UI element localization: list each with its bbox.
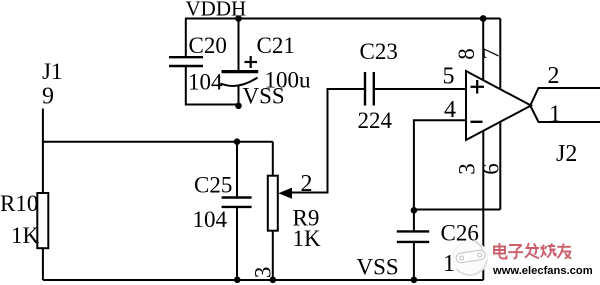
resistor R10 — [37, 193, 48, 248]
watermark char dian — [494, 243, 507, 259]
potentiometer R9 body — [268, 176, 278, 231]
node VSS junction dot — [235, 103, 242, 110]
wire C25 bottom lead — [236, 208, 238, 280]
svg-text:1: 1 — [549, 102, 561, 128]
capacitor C20 — [169, 57, 203, 66]
wire J1 pin 9 vertical — [42, 109, 44, 194]
svg-text:9: 9 — [42, 84, 54, 110]
wire pin 6 vertical — [499, 122, 501, 210]
wire pin 8 vertical — [482, 19, 484, 81]
svg-text:104: 104 — [188, 70, 223, 95]
svg-text:C25: C25 — [194, 173, 232, 198]
node junction dot C26 bottom — [411, 277, 418, 284]
svg-text:J1: J1 — [42, 59, 62, 84]
wire C25 top lead — [236, 142, 238, 197]
node junction dot at C25 top — [234, 138, 241, 145]
wire pin 7 vertical — [499, 19, 501, 90]
capacitor C26 — [397, 231, 429, 242]
svg-text:C21: C21 — [257, 33, 295, 58]
watermark char fa — [525, 243, 539, 258]
wire C20 bottom lead to VSS node — [186, 67, 239, 105]
svg-text:4: 4 — [444, 97, 456, 123]
svg-text:104: 104 — [193, 207, 228, 232]
svg-text:224: 224 — [358, 108, 393, 133]
net VSS bottom rail wire — [43, 279, 483, 281]
svg-text:7: 7 — [478, 48, 503, 60]
watermark char you — [557, 244, 571, 259]
watermark char zi — [508, 245, 523, 259]
svg-text:2: 2 — [301, 171, 313, 197]
svg-text:1K: 1K — [11, 223, 40, 248]
plus polarity mark of C21 — [245, 56, 258, 68]
svg-text:C23: C23 — [360, 39, 398, 64]
svg-text:5: 5 — [443, 64, 455, 90]
node junction dot at C26 top — [411, 207, 418, 214]
wire J1 horizontal to C25 and R9 — [43, 141, 273, 143]
wire output to J2 pin 1 — [531, 106, 600, 122]
capacitor C25 — [222, 198, 252, 207]
wire R9 wiper pin 2 to C23 — [289, 89, 365, 193]
wire C26 bottom lead — [413, 243, 415, 280]
svg-text:J2: J2 — [556, 141, 577, 167]
svg-text:8: 8 — [454, 48, 479, 60]
plus symbol inside op-amp — [471, 80, 485, 94]
node junction dot R9 bottom — [270, 277, 277, 284]
op-amp U1 triangle — [466, 71, 531, 140]
wire R9 bottom lead — [272, 231, 274, 280]
wire R10 bottom lead — [42, 248, 44, 280]
wire pin 3 vertical down to bottom rail — [482, 131, 484, 280]
node VDDH junction dot at C21 — [235, 15, 242, 22]
svg-text:VSS: VSS — [243, 84, 285, 109]
wire feedback bottom horizontal — [414, 209, 500, 211]
wire C21 bottom lead — [238, 86, 240, 107]
wire R9 top lead — [272, 142, 274, 176]
wire op-amp minus input pin 4 — [414, 120, 466, 210]
node VDDH junction dot at pin 8 — [480, 15, 487, 22]
arrowhead of R9 wiper — [278, 188, 292, 199]
wire C21 top lead — [238, 19, 240, 71]
watermark title Chinese text — [494, 243, 571, 259]
svg-text:VSS: VSS — [357, 255, 399, 280]
capacitor C21 polarized — [221, 72, 259, 86]
watermark logo circle — [453, 240, 488, 276]
wire C20 top lead — [185, 19, 187, 57]
minus symbol inside op-amp — [471, 121, 483, 123]
svg-text:2: 2 — [548, 63, 560, 89]
svg-text:6: 6 — [478, 163, 503, 175]
net VDDH top rail wire — [185, 18, 500, 20]
svg-text:3: 3 — [251, 267, 276, 279]
svg-text:VDDH: VDDH — [186, 0, 247, 21]
wire output to J2 pin 2 — [531, 88, 600, 105]
node junction dot C25 bottom — [234, 277, 241, 284]
wire C26 top lead — [413, 210, 415, 230]
capacitor C23 — [365, 72, 374, 106]
watermark char shao — [541, 244, 556, 258]
svg-text:3: 3 — [454, 163, 479, 175]
svg-text:www.elecfans.com: www.elecfans.com — [492, 265, 593, 277]
svg-text:R10: R10 — [0, 191, 38, 216]
svg-text:1K: 1K — [293, 226, 322, 251]
wire C23 to op-amp plus input pin 5 — [375, 88, 466, 90]
svg-text:C20: C20 — [189, 33, 227, 58]
